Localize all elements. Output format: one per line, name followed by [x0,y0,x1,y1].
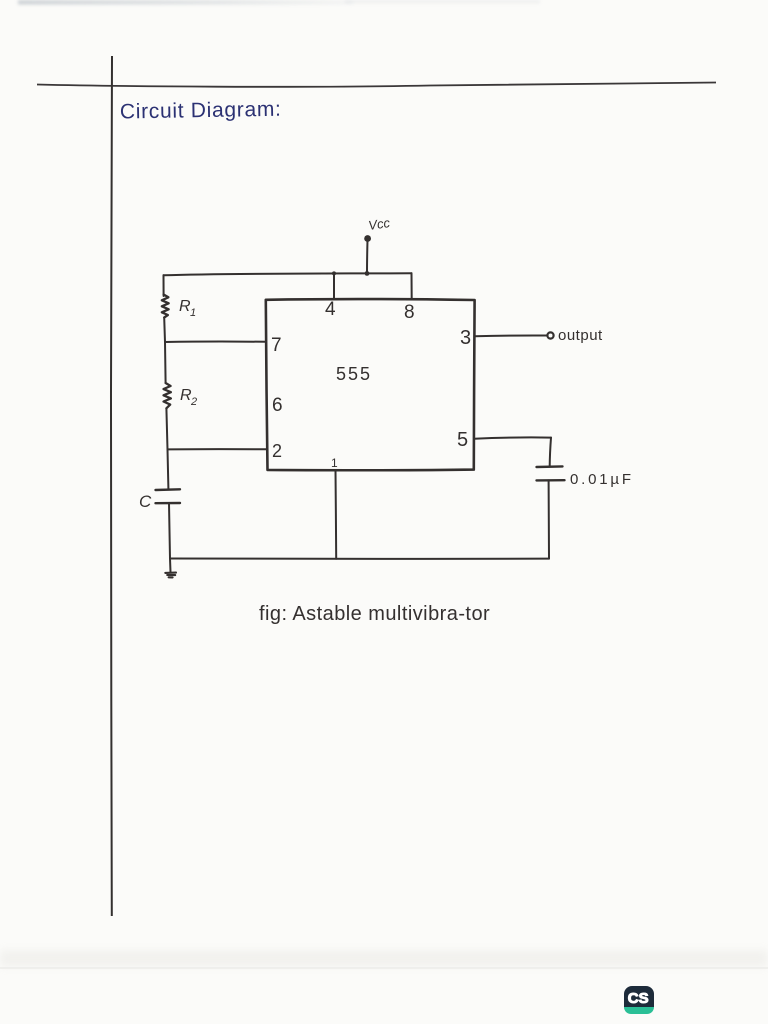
svg-text:555: 555 [336,364,372,384]
svg-text:fig: Astable multivibra-tor: fig: Astable multivibra-tor [259,603,490,625]
svg-text:output: output [558,327,603,344]
resistor R2 [164,383,171,408]
wire pin8 stub [411,273,413,299]
wire C to ground rail [169,503,170,558]
junction dot Vcc on rail [365,271,370,276]
capacitor C top plate [156,488,181,491]
wire pin7 junction to R2 [164,342,167,383]
svg-text:CS: CS [628,990,649,1007]
IC U1 555 box [266,299,475,470]
svg-text:4: 4 [325,299,336,320]
wire pin2 to R2-C junction [168,448,268,450]
wire pin7 to R1-R2 junction [165,341,266,343]
wire R1 to pin7 junction [163,318,166,343]
wire pin2 junction to capacitor C [167,449,170,488]
wire ground rail [170,558,549,561]
resistor R1 [162,295,169,318]
svg-text:3: 3 [460,327,471,349]
svg-text:0.01µF: 0.01µF [570,471,634,488]
svg-text:2: 2 [190,396,197,408]
svg-text:C: C [139,492,152,511]
svg-text:Vcc: Vcc [367,215,391,233]
wire C2 to ground rail [548,480,550,558]
wire R2 to pin2 junction [166,408,167,449]
svg-text:1: 1 [190,307,196,319]
capacitor C bottom plate [156,502,181,505]
svg-text:7: 7 [271,335,282,356]
svg-text:2: 2 [272,441,282,461]
output terminal circle [547,332,553,338]
wire left column rail-to-R1 [163,275,165,296]
wire Vcc drop [366,240,369,273]
wire pin4 stub [333,273,335,299]
svg-text:5: 5 [457,429,468,451]
wire pin5 east [474,437,551,438]
wire pin1 to ground rail [335,470,338,559]
wire pin3 to output terminal [475,334,547,337]
svg-text:Circuit Diagram:: Circuit Diagram: [120,98,282,124]
Vcc terminal dot [364,235,371,242]
capacitor C2 bottom plate [537,479,565,482]
wire pin5 corner down to C2 [550,438,551,466]
svg-text:1: 1 [331,456,338,470]
svg-text:8: 8 [404,302,415,323]
margin line vertical [111,56,112,916]
wire ground stub [169,559,172,573]
junction dot pin4 on rail [332,271,336,275]
ground symbol [165,573,176,578]
margin line horizontal [37,83,716,87]
capacitor C2 top plate [537,465,563,468]
wire top rail [164,273,412,275]
CamScanner logo [624,986,654,1014]
svg-text:6: 6 [272,395,283,416]
